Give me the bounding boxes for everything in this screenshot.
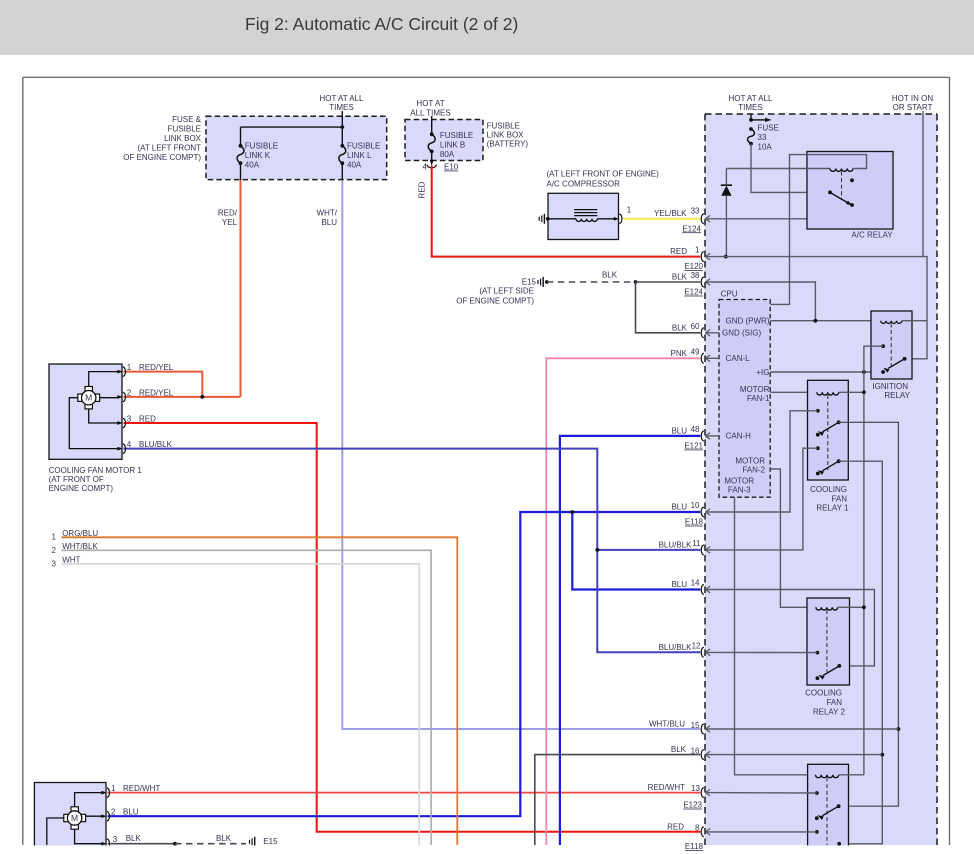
svg-text:WHT: WHT xyxy=(62,555,80,564)
wire RED/YEL motor pin 1 branch xyxy=(124,372,203,397)
motor 1 pin 3 xyxy=(117,421,123,425)
wire +IG xyxy=(770,371,883,373)
svg-text:1: 1 xyxy=(52,533,57,542)
svg-text:COOLING: COOLING xyxy=(805,689,842,698)
svg-text:FUSIBLE: FUSIBLE xyxy=(440,131,473,140)
svg-text:CAN-H: CAN-H xyxy=(726,432,752,441)
svg-text:E15: E15 xyxy=(522,278,537,287)
svg-text:LINK B: LINK B xyxy=(440,141,465,150)
cooling fan relay 1 switch A xyxy=(816,409,820,413)
wire PNK CAN-L pin 49 xyxy=(546,358,700,845)
svg-text:E118: E118 xyxy=(685,518,704,527)
wire MOTOR FAN-3 to bottom relay coil xyxy=(735,497,816,775)
svg-text:12: 12 xyxy=(692,641,701,650)
svg-text:E118: E118 xyxy=(685,842,704,851)
wire BLU from motor 2 pin 2 to pin 10 xyxy=(108,512,701,816)
svg-text:3: 3 xyxy=(113,835,118,844)
svg-text:FAN: FAN xyxy=(831,495,847,504)
wire ORG/BLU xyxy=(61,537,457,845)
title bar xyxy=(0,0,974,55)
fusible link B xyxy=(431,116,433,134)
svg-text:A/C COMPRESSOR: A/C COMPRESSOR xyxy=(547,180,621,189)
svg-text:IGNITION: IGNITION xyxy=(872,382,908,391)
wire pin10 to relay1 contact xyxy=(706,411,818,512)
svg-text:14: 14 xyxy=(691,579,700,588)
cooling fan relay 3 switch xyxy=(815,791,819,795)
svg-text:FUSE: FUSE xyxy=(758,124,779,133)
svg-text:E120: E120 xyxy=(684,262,703,271)
svg-text:RED/WHT: RED/WHT xyxy=(648,783,685,792)
connector entry pin 12 xyxy=(701,647,704,657)
svg-text:RELAY 2: RELAY 2 xyxy=(813,708,846,717)
svg-text:40A: 40A xyxy=(347,161,362,170)
svg-text:1: 1 xyxy=(627,206,632,215)
motor 1 pin 4 xyxy=(117,447,123,451)
motor 1 pin 2 xyxy=(117,395,123,399)
svg-text:RELAY 1: RELAY 1 xyxy=(816,504,849,513)
wire BLK to pin 38 xyxy=(636,281,701,283)
fuse and fusible link box xyxy=(206,116,387,179)
ECU module box xyxy=(705,114,937,845)
wire RED/WHT from motor 2 pin 1 to pin 13 xyxy=(108,792,701,794)
svg-text:RELAY: RELAY xyxy=(884,391,910,400)
svg-text:40A: 40A xyxy=(245,161,260,170)
svg-text:BLK: BLK xyxy=(216,834,232,843)
wire BLU/BLK branch to pin 11 xyxy=(597,549,700,551)
fusible link K xyxy=(239,144,243,148)
wire WHT/BLK xyxy=(61,550,431,845)
wire pin12 to relay2 contact xyxy=(706,651,818,653)
svg-text:BLK: BLK xyxy=(672,323,688,332)
svg-text:MOTOR: MOTOR xyxy=(735,457,765,466)
svg-text:38: 38 xyxy=(691,271,700,280)
svg-text:BLU: BLU xyxy=(123,808,139,817)
svg-text:COOLING FAN MOTOR 1: COOLING FAN MOTOR 1 xyxy=(49,466,143,475)
compressor clutch coil xyxy=(548,218,576,220)
ignition relay armature xyxy=(890,324,892,367)
svg-text:FAN: FAN xyxy=(826,698,842,707)
wire YEL/BLK compressor to pin 33 xyxy=(624,218,701,220)
svg-text:10A: 10A xyxy=(758,143,773,152)
cooling fan motor 2 xyxy=(34,783,106,849)
svg-text:HOT AT ALL: HOT AT ALL xyxy=(319,94,364,103)
svg-text:BLU: BLU xyxy=(321,218,337,227)
svg-text:OF ENGINE COMPT): OF ENGINE COMPT) xyxy=(456,297,534,306)
svg-text:(AT LEFT SIDE: (AT LEFT SIDE xyxy=(479,287,534,296)
A/C relay switch xyxy=(850,178,854,182)
svg-text:1: 1 xyxy=(695,246,700,255)
wire BLK to pin 60 xyxy=(636,282,701,333)
svg-text:FAN-1: FAN-1 xyxy=(747,394,770,403)
svg-text:+IG: +IG xyxy=(756,368,769,377)
wire RED/YEL motor pin 2 branch xyxy=(124,396,241,398)
motor 1 internal wires xyxy=(89,372,119,387)
wire GND(PWR) to ignition relay coil xyxy=(770,320,881,322)
svg-text:RED: RED xyxy=(670,247,687,256)
wire inside to A/C relay contact xyxy=(706,180,879,219)
svg-text:1: 1 xyxy=(127,363,132,372)
junction RED/YEL xyxy=(200,395,204,399)
svg-text:ENGINE COMPT): ENGINE COMPT) xyxy=(49,484,114,493)
svg-text:LINK BOX: LINK BOX xyxy=(164,134,202,143)
cooling fan relay 3 xyxy=(808,764,849,848)
svg-text:Fig 2: Automatic A/C Circuit (: Fig 2: Automatic A/C Circuit (2 of 2) xyxy=(245,14,518,34)
svg-text:RED: RED xyxy=(667,822,684,831)
svg-text:YEL: YEL xyxy=(222,218,238,227)
ground E15 (bottom) xyxy=(249,840,251,844)
svg-text:(BATTERY): (BATTERY) xyxy=(487,140,529,149)
svg-text:FUSE &: FUSE & xyxy=(172,115,202,124)
svg-text:MOTOR: MOTOR xyxy=(724,477,754,486)
compressor case ground xyxy=(538,217,540,221)
A/C relay coil xyxy=(726,168,830,170)
svg-text:2: 2 xyxy=(127,389,132,398)
svg-text:HOT AT ALL: HOT AT ALL xyxy=(728,94,773,103)
svg-text:2: 2 xyxy=(111,808,116,817)
svg-text:CPU: CPU xyxy=(721,290,738,299)
cooling fan relay 1 armature xyxy=(827,395,829,470)
svg-text:4: 4 xyxy=(423,163,428,172)
svg-text:E123: E123 xyxy=(683,801,702,810)
wire CAN-H stub xyxy=(706,435,719,437)
svg-text:15: 15 xyxy=(691,721,700,730)
svg-text:33: 33 xyxy=(691,206,700,215)
wire fuse to A/C relay common xyxy=(751,144,830,193)
svg-text:E10: E10 xyxy=(444,163,459,172)
cooling fan relay 2 switch xyxy=(816,651,820,655)
wire battery feed / hot in on xyxy=(706,257,927,359)
connector E10 pin 4 xyxy=(430,160,434,166)
A/C compressor xyxy=(548,193,619,239)
svg-text:BLU/BLK: BLU/BLK xyxy=(659,643,693,652)
connector entry pin 8 xyxy=(701,827,704,837)
svg-text:4: 4 xyxy=(127,440,132,449)
svg-text:PNK: PNK xyxy=(671,349,688,358)
svg-text:M: M xyxy=(71,813,78,823)
compressor pin 1 xyxy=(614,217,620,221)
motor 2 pin 1 xyxy=(101,791,107,795)
wire BLK pin 16 xyxy=(535,755,701,845)
motor 2 pin 3 xyxy=(101,842,107,846)
junction BLU/BLK xyxy=(595,548,599,552)
svg-text:WHT/BLU: WHT/BLU xyxy=(649,720,685,729)
svg-text:OR START: OR START xyxy=(893,103,933,112)
svg-text:BLU/BLK: BLU/BLK xyxy=(659,541,693,550)
diode D1 xyxy=(725,169,727,186)
wire pin16 internal xyxy=(706,754,882,756)
wire BLU CAN-H pin 48 xyxy=(560,436,700,845)
svg-text:3: 3 xyxy=(52,559,57,568)
motor 2 pin 2 xyxy=(101,814,107,818)
svg-text:FUSIBLE: FUSIBLE xyxy=(347,142,380,151)
svg-text:10: 10 xyxy=(691,501,700,510)
connector entry pin 11 xyxy=(701,545,704,555)
motor 1 symbol xyxy=(85,387,92,392)
wire RED/YEL from fusible link K to cooling fan motor 1 xyxy=(240,180,242,397)
svg-text:RED/YEL: RED/YEL xyxy=(139,389,174,398)
svg-text:A/C RELAY: A/C RELAY xyxy=(851,230,893,239)
wire MOTOR FAN-2 to cooling fan relay 2 coil xyxy=(770,469,816,607)
svg-text:ALL TIMES: ALL TIMES xyxy=(410,109,450,118)
wire pin13 to relay3 contact xyxy=(706,792,817,794)
svg-text:11: 11 xyxy=(692,539,701,548)
connector entry pin 1 (RED) xyxy=(701,252,704,262)
fusible link L xyxy=(340,144,344,148)
svg-text:80A: 80A xyxy=(440,150,455,159)
svg-text:M: M xyxy=(85,393,92,403)
wire BLK dashed to junction xyxy=(547,281,636,283)
wire pin15 internal xyxy=(706,728,899,730)
connector entry pin 48 xyxy=(701,431,704,441)
connector entry pin 14 xyxy=(701,585,704,595)
svg-text:GND (PWR): GND (PWR) xyxy=(726,317,770,326)
wire ignition contact to +IG rail xyxy=(864,346,883,775)
cooling fan relay 3 coil xyxy=(815,775,838,778)
wire BLU/BLK from motor 1 pin 4 to pin 12 xyxy=(124,449,701,653)
svg-text:TIMES: TIMES xyxy=(329,103,353,112)
wire MOTOR FAN-1 to relay coil xyxy=(770,391,817,393)
fuse 33 10A xyxy=(750,114,752,120)
cooling fan relay 1 coil xyxy=(817,392,839,395)
svg-text:FUSIBLE: FUSIBLE xyxy=(245,142,278,151)
wire pin14 to cooling fan relay 2 common xyxy=(706,590,875,666)
svg-text:WHT/: WHT/ xyxy=(317,209,338,218)
svg-text:BLU: BLU xyxy=(671,580,687,589)
svg-text:RED/YEL: RED/YEL xyxy=(139,363,174,372)
svg-text:TIMES: TIMES xyxy=(738,103,762,112)
cooling fan motor 1 xyxy=(49,364,122,459)
ignition relay coil xyxy=(881,321,902,324)
wire WHT xyxy=(61,564,419,845)
cooling fan relay 2 coil xyxy=(816,607,838,610)
wire CAN-L stub xyxy=(706,357,719,359)
cooling fan relay 2 armature xyxy=(826,610,828,672)
svg-text:E121: E121 xyxy=(684,442,703,451)
svg-text:LINK K: LINK K xyxy=(245,151,271,160)
motor 2 internal wires xyxy=(75,793,103,807)
svg-text:BLK: BLK xyxy=(602,271,618,280)
svg-text:E15: E15 xyxy=(263,837,278,846)
connector entry pin 49 xyxy=(701,353,704,363)
wire pin8 to relay3 contact xyxy=(706,831,817,833)
svg-text:(AT FRONT OF: (AT FRONT OF xyxy=(49,475,104,484)
svg-text:8: 8 xyxy=(695,823,700,832)
svg-text:E124: E124 xyxy=(684,288,703,297)
wire GND(SIG) stub xyxy=(706,332,719,334)
motor 1 pin 1 xyxy=(117,370,123,374)
svg-text:(AT LEFT FRONT OF ENGINE): (AT LEFT FRONT OF ENGINE) xyxy=(547,170,660,179)
wire RED from motor 1 pin 3 to pin 8 xyxy=(124,423,701,832)
cooling fan relay 1 switch B xyxy=(816,446,820,450)
svg-text:33: 33 xyxy=(758,133,767,142)
svg-text:FAN-3: FAN-3 xyxy=(728,486,751,495)
svg-text:RED/: RED/ xyxy=(218,209,238,218)
svg-text:RED/WHT: RED/WHT xyxy=(123,784,160,793)
svg-text:RED: RED xyxy=(418,181,427,198)
wire relay1 common to WHT/BLU rail xyxy=(839,422,899,806)
svg-text:60: 60 xyxy=(691,322,700,331)
svg-text:BLU/BLK: BLU/BLK xyxy=(139,440,173,449)
junction BLU xyxy=(570,510,574,514)
A/C relay U1 xyxy=(807,152,893,230)
connector entry pin 38 xyxy=(701,277,704,287)
diagram frame xyxy=(23,76,950,78)
svg-text:MOTOR: MOTOR xyxy=(740,385,770,394)
svg-text:(AT LEFT FRONT: (AT LEFT FRONT xyxy=(137,144,201,153)
svg-text:LINK L: LINK L xyxy=(347,151,372,160)
cooling fan relay 1 xyxy=(808,380,849,480)
cooling fan relay 3 armature xyxy=(826,778,828,846)
svg-text:BLU: BLU xyxy=(671,427,687,436)
connector entry pin 15 xyxy=(701,724,704,734)
svg-text:OF ENGINE COMPT): OF ENGINE COMPT) xyxy=(123,153,201,162)
svg-text:LINK BOX: LINK BOX xyxy=(487,131,525,140)
svg-text:13: 13 xyxy=(691,784,700,793)
svg-text:16: 16 xyxy=(691,747,700,756)
svg-text:BLK: BLK xyxy=(672,273,688,282)
connector entry pin 60 xyxy=(701,328,704,338)
wire BLU branch to pin 14 xyxy=(572,512,700,590)
A/C relay armature xyxy=(841,172,843,200)
wire pin11 to relay1 contact xyxy=(706,448,818,550)
svg-text:YEL/BLK: YEL/BLK xyxy=(654,209,687,218)
connector entry pin 16 xyxy=(701,750,704,760)
ignition relay xyxy=(871,311,912,379)
wire BLK 38 to GND(PWR) xyxy=(706,282,816,321)
svg-text:48: 48 xyxy=(691,425,700,434)
svg-text:RED: RED xyxy=(139,415,156,424)
svg-text:BLU: BLU xyxy=(671,503,687,512)
CPU module xyxy=(719,300,770,498)
svg-text:49: 49 xyxy=(691,347,700,356)
connector entry pin 33 xyxy=(701,214,704,224)
wire BLK motor 2 to ground E15 xyxy=(108,843,176,845)
connector entry pin 10 xyxy=(701,507,704,517)
wire WHT/BLU from fusible link L to pin 15 xyxy=(342,180,700,729)
svg-text:GND (SIG): GND (SIG) xyxy=(722,329,761,338)
wire hot feed into link box xyxy=(341,111,343,146)
svg-text:BLK: BLK xyxy=(671,745,687,754)
svg-text:HOT AT: HOT AT xyxy=(416,99,444,108)
svg-text:E124: E124 xyxy=(682,224,701,233)
svg-text:2: 2 xyxy=(52,546,57,555)
svg-text:HOT IN ON: HOT IN ON xyxy=(892,94,933,103)
svg-text:1: 1 xyxy=(111,784,116,793)
ignition relay switch xyxy=(881,344,885,348)
svg-text:COOLING: COOLING xyxy=(810,485,847,494)
wire RED from fusible link B to pin 1 xyxy=(432,166,701,257)
cooling fan relay 2 xyxy=(807,598,850,685)
wire relay1 common B to BLK rail xyxy=(839,461,883,844)
connector entry pin 13 xyxy=(701,788,704,798)
svg-text:FUSIBLE: FUSIBLE xyxy=(487,122,520,131)
bottom clip band xyxy=(0,846,974,854)
svg-text:CAN-L: CAN-L xyxy=(726,354,751,363)
svg-text:BLK: BLK xyxy=(126,834,142,843)
motor 2 symbol xyxy=(71,807,78,812)
svg-text:FUSIBLE: FUSIBLE xyxy=(168,125,201,134)
svg-text:FAN-2: FAN-2 xyxy=(742,466,765,475)
svg-text:3: 3 xyxy=(127,415,132,424)
fusible link box (battery) xyxy=(405,120,483,161)
